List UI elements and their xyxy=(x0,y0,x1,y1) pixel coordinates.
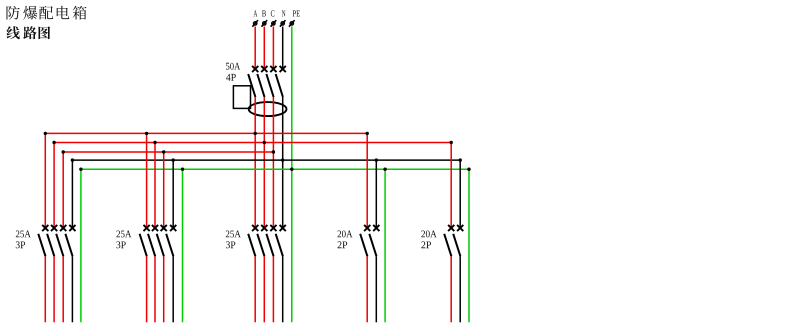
wire incoming A xyxy=(254,27,256,70)
wire branch 4 20A 2P PE drop xyxy=(384,169,386,322)
junction node bus PE x=385.1 xyxy=(383,168,386,171)
wire branch 1 25A 3P outgoing N xyxy=(71,256,73,322)
branch breaker 1 25A 3P blade pole N xyxy=(65,234,72,256)
wire branch 1 25A 3P drop C xyxy=(62,152,64,228)
wire branch 4 20A 2P drop N xyxy=(375,160,377,228)
wire incoming N xyxy=(282,27,284,70)
main breaker blade pole C xyxy=(266,74,273,97)
branch breaker 3 25A 3P contact X pole B xyxy=(261,225,267,231)
terminal N xyxy=(280,20,286,27)
main breaker blade pole B xyxy=(257,74,264,97)
branch breaker 2 25A 3P blade pole B xyxy=(148,234,155,256)
junction node bus A x=367.2 xyxy=(366,132,369,135)
main breaker contact X pole C xyxy=(270,66,276,72)
wire branch 2 25A 3P outgoing B xyxy=(154,256,156,322)
branch breaker 5 20A 2P blade pole B xyxy=(444,234,451,256)
wire branch 1 25A 3P drop A xyxy=(44,133,46,228)
main breaker blade pole A xyxy=(248,74,255,97)
junction node bus B x=54.1 xyxy=(52,141,55,144)
wire branch 5 20A 2P drop B xyxy=(450,143,452,229)
wire branch 5 20A 2P PE drop xyxy=(468,169,470,322)
junction node bus C x=163.7 xyxy=(162,150,165,153)
branch breaker 4 20A 2P contact X pole A xyxy=(364,225,370,231)
terminal B xyxy=(262,20,268,27)
branch breaker 4 20A 2P contact X pole N xyxy=(373,225,379,231)
wire branch 2 25A 3P drop N xyxy=(172,160,174,228)
main breaker contact X pole A xyxy=(252,66,258,72)
phase labels A B C N PE xyxy=(253,10,299,16)
wire incoming B xyxy=(263,27,265,70)
label branch 1 25A 3P xyxy=(16,231,31,249)
branch breaker 4 20A 2P blade pole N xyxy=(369,234,376,256)
wire branch 5 20A 2P drop N xyxy=(459,160,461,228)
bus neutral N xyxy=(72,159,460,161)
wire branch 2 25A 3P drop C xyxy=(163,152,165,228)
bus phase C xyxy=(63,151,273,153)
branch breaker 2 25A 3P contact X pole A xyxy=(144,225,150,231)
wire branch 1 25A 3P PE drop xyxy=(80,169,82,322)
branch breaker 2 25A 3P contact X pole C xyxy=(161,225,167,231)
branch breaker 3 25A 3P blade pole C xyxy=(266,234,273,256)
wire branch 1 25A 3P drop B xyxy=(53,143,55,229)
branch breaker 4 20A 2P blade pole A xyxy=(360,234,367,256)
junction node bus N x=376.3 xyxy=(375,158,378,161)
wire branch 2 25A 3P outgoing C xyxy=(163,256,165,322)
wire feeder C (breaker to bus to branch 3) xyxy=(272,97,274,228)
wire branch 2 25A 3P drop A xyxy=(146,133,148,228)
title line 1: 防爆配电箱 xyxy=(6,6,86,20)
wire branch 3 outgoing A xyxy=(254,256,256,322)
branch breaker 1 25A 3P contact X pole A xyxy=(42,225,48,231)
label branch 5 20A 2P xyxy=(421,231,436,249)
RCD toroid ellipse xyxy=(249,102,287,116)
title line 2: 线路图 xyxy=(6,26,50,39)
branch breaker 5 20A 2P contact X pole B xyxy=(448,225,454,231)
main breaker blade pole N xyxy=(276,74,283,97)
wire branch 2 25A 3P outgoing N xyxy=(172,256,174,322)
wire branch 3 outgoing B xyxy=(263,256,265,322)
branch breaker 1 25A 3P blade pole A xyxy=(38,234,45,256)
branch breaker 1 25A 3P blade pole B xyxy=(47,234,54,256)
junction node bus PE x=80.9 xyxy=(79,168,82,171)
branch breaker 2 25A 3P contact X pole B xyxy=(152,225,158,231)
wire branch 2 25A 3P PE drop xyxy=(182,169,184,322)
branch breaker 1 25A 3P contact X pole N xyxy=(69,225,75,231)
wire PE main (full drop) xyxy=(291,27,293,323)
junction node bus B x=155.0 xyxy=(153,141,156,144)
junction node bus PE x=469.0 xyxy=(467,168,470,171)
wire branch 1 25A 3P outgoing B xyxy=(53,256,55,322)
terminal A xyxy=(252,20,258,27)
wire branch 5 20A 2P outgoing B xyxy=(450,256,452,322)
junction node bus B x=264.3 xyxy=(263,141,266,144)
RCD test device rectangle xyxy=(233,86,250,109)
branch breaker 3 25A 3P contact X pole A xyxy=(252,225,258,231)
wire branch 1 25A 3P outgoing A xyxy=(44,256,46,322)
branch breaker 3 25A 3P contact X pole C xyxy=(270,225,276,231)
main breaker contact X pole N xyxy=(280,66,286,72)
terminal PE xyxy=(289,20,295,27)
branch breaker 2 25A 3P blade pole N xyxy=(166,234,173,256)
bus phase B xyxy=(54,142,451,144)
branch breaker 3 25A 3P blade pole B xyxy=(257,234,264,256)
junction node bus A x=45.3 xyxy=(44,132,47,135)
wire branch 4 20A 2P drop A xyxy=(366,133,368,228)
branch breaker 3 25A 3P blade pole A xyxy=(248,234,255,256)
junction node bus A x=255.2 xyxy=(254,132,257,135)
wire branch 4 20A 2P outgoing A xyxy=(366,256,368,322)
junction node bus C x=63.2 xyxy=(62,150,65,153)
wire branch 2 25A 3P drop B xyxy=(154,143,156,229)
junction node bus PE x=291.8 xyxy=(290,168,293,171)
main breaker contact X pole B xyxy=(261,66,267,72)
branch breaker 3 25A 3P blade pole N xyxy=(276,234,283,256)
wire branch 5 20A 2P outgoing N xyxy=(459,256,461,322)
wire branch 2 25A 3P outgoing A xyxy=(146,256,148,322)
branch breaker 5 20A 2P blade pole N xyxy=(453,234,460,256)
junction node bus C x=273.4 xyxy=(272,150,275,153)
branch breaker 2 25A 3P contact X pole N xyxy=(170,225,176,231)
wire incoming C xyxy=(272,27,274,70)
branch breaker 2 25A 3P blade pole A xyxy=(140,234,147,256)
wire branch 3 outgoing C xyxy=(272,256,274,322)
branch breaker 1 25A 3P contact X pole B xyxy=(51,225,57,231)
branch breaker 2 25A 3P blade pole C xyxy=(157,234,164,256)
branch breaker 1 25A 3P blade pole C xyxy=(56,234,63,256)
main breaker QF0 50A 4P label xyxy=(226,63,240,81)
junction node bus N x=72.4 xyxy=(71,158,74,161)
label branch 4 20A 2P xyxy=(337,231,352,249)
wire branch 1 25A 3P outgoing C xyxy=(62,256,64,322)
wire branch 1 25A 3P drop N xyxy=(71,160,73,228)
wire feeder A (breaker to bus to branch 3) xyxy=(254,97,256,228)
junction node bus A x=146.6 xyxy=(145,132,148,135)
junction node bus N x=173.2 xyxy=(172,158,175,161)
wire feeder B (breaker to bus to branch 3) xyxy=(263,97,265,228)
terminal C xyxy=(271,20,277,27)
branch breaker 5 20A 2P contact X pole N xyxy=(457,225,463,231)
label branch 2 25A 3P xyxy=(116,231,131,249)
wire feeder N (breaker to bus to branch 3) xyxy=(282,97,284,228)
junction node bus N x=460.2 xyxy=(459,158,462,161)
wire branch 4 20A 2P outgoing N xyxy=(375,256,377,322)
bus earth PE xyxy=(81,168,469,170)
junction node bus PE x=182.5 xyxy=(181,168,184,171)
wire branch 3 outgoing N xyxy=(282,256,284,322)
bus phase A xyxy=(45,132,367,134)
label branch 3 25A 3P xyxy=(226,231,241,249)
branch breaker 3 25A 3P contact X pole N xyxy=(280,225,286,231)
branch breaker 1 25A 3P contact X pole C xyxy=(60,225,66,231)
junction node bus B x=451.2 xyxy=(450,141,453,144)
junction node bus N x=282.7 xyxy=(281,158,284,161)
